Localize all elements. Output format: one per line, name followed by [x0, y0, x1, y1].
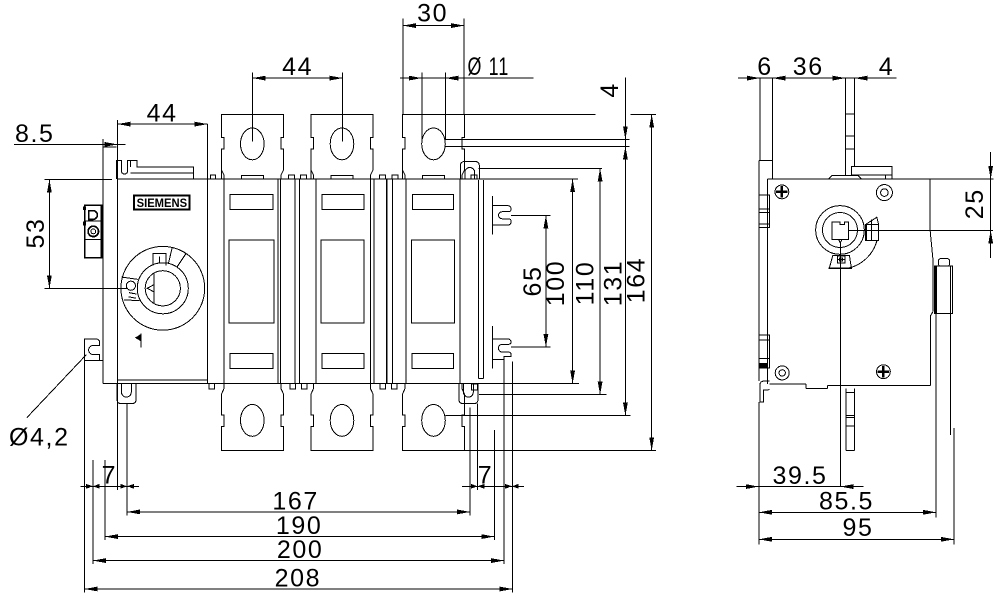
dim 53 left — [44, 179, 128, 288]
bottom extension lines left — [85, 360, 128, 592]
plain circle top — [876, 185, 892, 201]
dim 7 bottom left — [81, 485, 140, 487]
side knob — [816, 206, 865, 255]
svg-text:8.5: 8.5 — [15, 120, 55, 148]
dim 190 bottom — [105, 536, 494, 538]
front view body outline — [103, 120, 579, 384]
side view lower din bracket — [759, 335, 770, 368]
handle swing arc — [847, 241, 877, 269]
dim 7 bottom right — [462, 485, 524, 487]
small bumps on top edge — [211, 175, 399, 179]
svg-text:39.5: 39.5 — [772, 462, 827, 490]
bottom terminal tab 1 — [222, 384, 284, 451]
svg-text:30: 30 — [417, 0, 448, 28]
dim 44 top-left — [118, 123, 208, 125]
bottom extension lines right — [470, 356, 512, 592]
svg-text:7: 7 — [102, 462, 118, 490]
dim 6 36 4 side top — [738, 78, 897, 179]
svg-text:SIEMENS: SIEMENS — [137, 196, 188, 210]
dim diameter 4,2 leader — [27, 355, 87, 418]
dim 65 right — [511, 215, 550, 347]
dim 131 right and dim 4 — [445, 77, 630, 415]
svg-text:44: 44 — [282, 53, 313, 81]
rotary handle knob — [121, 246, 205, 330]
dim 44 top-middle — [253, 73, 343, 142]
svg-text:208: 208 — [275, 564, 322, 592]
svg-text:164: 164 — [623, 257, 651, 304]
din latch bar bottom — [846, 388, 854, 450]
bottom-right body clip — [459, 384, 478, 404]
dim 25 side right — [930, 152, 994, 258]
svg-text:6: 6 — [757, 53, 773, 81]
dim 30 top — [403, 18, 464, 114]
dim diameter 11 — [400, 73, 533, 141]
svg-text:Ø 11: Ø 11 — [468, 53, 510, 81]
svg-text:25: 25 — [961, 188, 989, 219]
thick pole divider — [386, 179, 388, 384]
phillips screw top — [775, 185, 789, 199]
dim 164 right — [464, 114, 656, 450]
top terminal tab 3 — [403, 114, 465, 179]
svg-text:100: 100 — [542, 260, 570, 307]
bottom terminal tab 2 — [311, 384, 373, 451]
small bumps on bottom edge — [209, 384, 397, 390]
svg-text:36: 36 — [793, 53, 824, 81]
svg-text:44: 44 — [147, 99, 178, 127]
svg-text:Ø4,2: Ø4,2 — [9, 424, 70, 452]
svg-text:7: 7 — [478, 462, 494, 490]
right side wall clip upper — [493, 196, 512, 235]
lock symbol below knob — [140, 334, 142, 348]
svg-text:110: 110 — [572, 261, 600, 306]
dim 85.5 side bottom — [759, 511, 936, 513]
phillips screw bottom — [877, 365, 891, 379]
side handle clamp — [865, 217, 878, 240]
side knob center lines — [840, 230, 993, 486]
vent windows top — [230, 195, 454, 210]
svg-text:95: 95 — [842, 514, 873, 542]
dim 39.5 side bottom — [737, 486, 864, 488]
vent windows bottom — [230, 353, 453, 368]
svg-text:85.5: 85.5 — [819, 488, 874, 516]
bottom-left mounting bracket — [85, 339, 103, 360]
side view outline — [759, 160, 933, 388]
side view upper din bracket — [759, 195, 770, 228]
dim 100 right — [572, 179, 574, 384]
top terminal tab 2 — [311, 114, 373, 179]
extension lines side bottom — [759, 313, 954, 544]
svg-text:4: 4 — [879, 53, 895, 81]
pole molding vertical lines — [224, 179, 484, 384]
knob skirt — [829, 255, 851, 268]
dim 8.5 top left — [14, 139, 126, 149]
terminal tab side view vertical — [846, 78, 855, 175]
dim 200 bottom — [93, 560, 504, 562]
top-left DIN clip and interlock bar — [117, 161, 194, 179]
plain circle bottom — [775, 366, 789, 380]
top-right body clip — [460, 162, 479, 180]
dim 95 side bottom — [759, 538, 954, 540]
svg-text:200: 200 — [277, 536, 324, 564]
bottom-left body clip — [117, 384, 136, 404]
siemens logo — [134, 196, 190, 210]
left accessory latch — [85, 205, 102, 257]
bottom terminal tab 3 — [403, 384, 465, 451]
right side wall clip lower — [493, 326, 512, 369]
dim 110 right — [478, 168, 606, 394]
handle shaft side view — [935, 259, 953, 435]
top terminal tab 1 — [222, 114, 284, 179]
dim 167 bottom — [127, 511, 470, 513]
center windows — [229, 240, 455, 323]
side view bottom-left foot — [760, 381, 770, 402]
terminal plate side view — [829, 167, 892, 179]
svg-text:53: 53 — [22, 217, 50, 248]
svg-text:4: 4 — [596, 82, 624, 98]
dim 208 bottom — [85, 588, 513, 590]
